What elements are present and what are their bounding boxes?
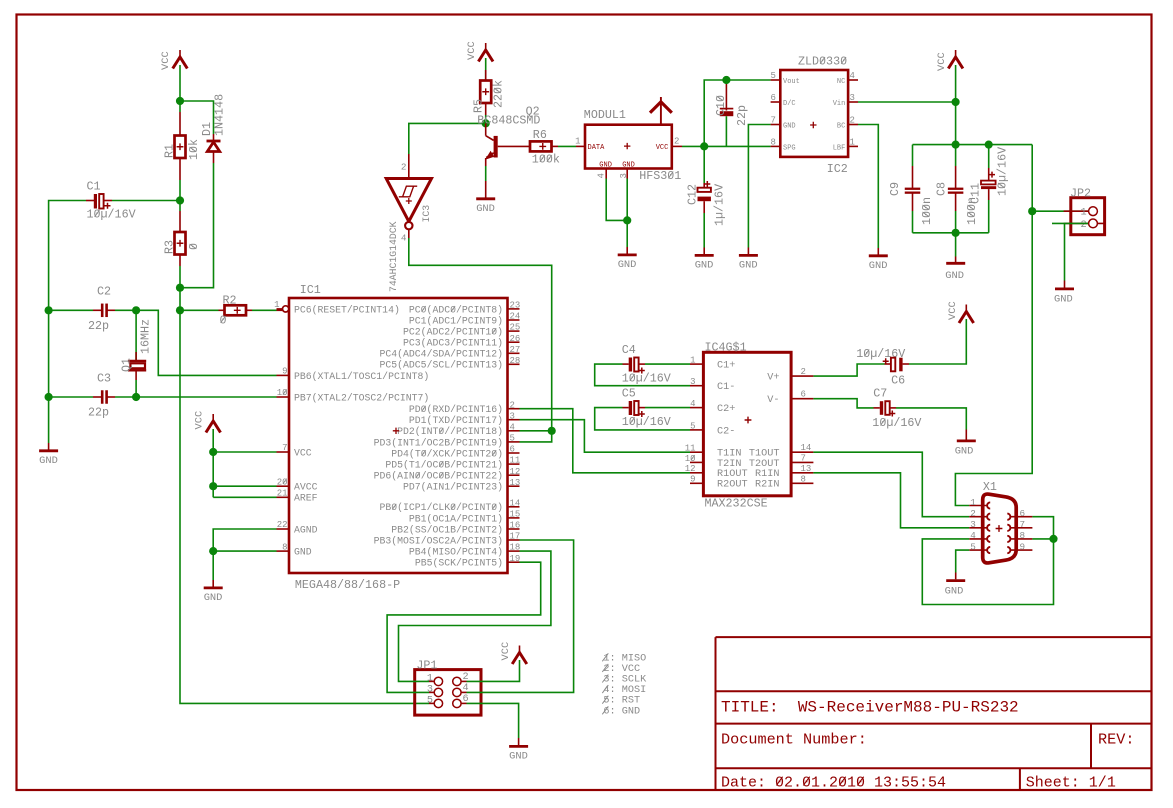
node junction C2/Q1/XTAL1 [132,306,140,314]
svg-text:4: MOSI: 4: MOSI [603,685,646,696]
ground symbol C12 [695,254,714,257]
svg-text:PD7(AIN1/PCINT23): PD7(AIN1/PCINT23) [403,482,503,493]
wire to IC1 AVCC pin 20 [213,485,276,487]
svg-text:100k: 100k [532,153,560,167]
svg-text:V-: V- [767,395,779,406]
svg-text:10µ/16V: 10µ/16V [622,372,671,386]
svg-text:1: 1 [427,673,433,684]
svg-text:GND: GND [509,751,528,763]
wire rail to JP2 and X1 pin1 [955,145,1032,506]
svg-text:GND: GND [945,270,964,282]
resistor R5 220k [485,70,487,81]
svg-text:5: 5 [510,434,515,444]
svg-text:16MHz: 16MHz [139,319,153,354]
svg-text:BC848CSMD: BC848CSMD [477,114,540,128]
JP1 pin legend [603,653,646,664]
svg-text:16: 16 [510,521,521,531]
svg-text:13: 13 [801,464,812,474]
svg-text:C11: C11 [969,183,983,204]
svg-text:LBF: LBF [833,145,846,153]
svg-text:3: 3 [690,377,695,387]
wire IC2 GND pin7 to ground [748,125,770,248]
supply VCC arrow above C6 [965,305,967,312]
svg-text:2: VCC: 2: VCC [603,664,640,675]
svg-text:3: SCLK: 3: SCLK [603,675,647,686]
svg-text:GND: GND [739,260,758,272]
wire C4 plus to C1+ [645,363,690,365]
svg-text:74AHC1G14DCK: 74AHC1G14DCK [388,221,399,292]
node junction D1/R3 [176,284,184,292]
svg-text:0: 0 [187,243,201,250]
svg-text:6: 6 [801,390,806,400]
ground symbol left rail [48,443,50,450]
svg-text:GND: GND [599,161,612,169]
svg-text:GND: GND [476,203,495,215]
svg-text:13: 13 [510,478,521,488]
svg-text:2: 2 [970,508,976,519]
svg-text:3: 3 [970,519,976,530]
svg-text:GND: GND [1054,293,1073,305]
X1 left pins [969,505,987,507]
svg-text:PB1(OC1A/PCINT1): PB1(OC1A/PCINT1) [409,513,503,524]
svg-text:C1-: C1- [717,382,735,393]
wire V- to C7 [813,399,873,408]
wire MOSI PB3 to JP1 pin4 [467,540,574,692]
wire JP1 pin6 to ground [467,703,519,738]
svg-text:PB5(SCK/PCINT5): PB5(SCK/PCINT5) [415,558,503,569]
wire JP2 pin2 to ground [1052,222,1088,224]
svg-text:10: 10 [685,454,696,464]
svg-text:GND: GND [783,123,796,131]
supply VCC arrow right [955,50,957,57]
wire R1IN to X1 pin3 [813,473,969,528]
wire pin8 to loop [1032,538,1053,540]
svg-text:D/C: D/C [783,100,796,108]
svg-text:2: 2 [674,137,679,147]
svg-text:Vin: Vin [833,100,846,108]
svg-text:R6: R6 [533,128,547,142]
svg-text:14: 14 [510,498,521,508]
svg-text:6: 6 [510,445,515,455]
node junction R1/C1 [176,196,184,204]
capacitor C10 22p [725,80,727,84]
MAX232 origin cross [745,417,752,424]
svg-text:R2IN: R2IN [755,480,779,491]
svg-text:PB7(XTAL2/TOSC2/PCINT7): PB7(XTAL2/TOSC2/PCINT7) [294,392,429,403]
svg-text:1: MISO: 1: MISO [603,653,646,664]
wire IC3 output to PD2/PD3 [409,238,552,442]
svg-text:C2-: C2- [717,426,735,437]
resistor R6 100k [530,141,552,151]
node junction Vout rail/MODUL1 VCC [700,142,708,150]
svg-text:AREF: AREF [294,493,318,504]
supply VCC arrow top-left [179,50,181,57]
node junction VCC pin7 [209,448,217,456]
node junction JP2 feed [1028,207,1036,215]
svg-text:1: 1 [274,300,279,310]
svg-text:C1: C1 [87,180,101,194]
svg-text:11: 11 [510,456,521,466]
rev label [1098,731,1134,749]
svg-text:5: 5 [427,695,433,706]
svg-text:18: 18 [510,543,521,553]
svg-text:10µ/16V: 10µ/16V [872,416,921,430]
svg-text:SPG: SPG [783,145,796,153]
wire AGND net [213,529,276,580]
svg-text:17: 17 [510,532,521,542]
svg-text:1: 1 [690,356,695,366]
svg-text:JP2: JP2 [1070,187,1091,201]
svg-text:PD2(INT0//PCINT18): PD2(INT0//PCINT18) [397,426,503,437]
IC2 ZLD0330 box [780,70,848,157]
sheet text [1026,774,1116,791]
svg-text:10: 10 [277,388,288,398]
svg-text:10µ/16V: 10µ/16V [87,208,136,222]
wire X1 pin4 to pin8/pin6 loop [922,517,1053,605]
svg-text:14: 14 [801,443,812,453]
svg-text:VCC: VCC [936,52,948,71]
svg-text:GND: GND [869,260,888,272]
svg-text:5: RST: 5: RST [603,696,640,707]
capacitor C3 22p [97,372,111,386]
svg-text:PC4(ADC4/SDA/PCINT12): PC4(ADC4/SDA/PCINT12) [380,349,503,360]
svg-text:R1OUT: R1OUT [717,469,748,480]
X1 right pins [1011,516,1033,518]
svg-text:22p: 22p [88,406,109,420]
svg-text:Sheet: 1/1: Sheet: 1/1 [1026,774,1116,791]
svg-text:C3: C3 [97,372,111,386]
svg-text:VCC: VCC [194,411,206,430]
capacitor C11 10u/16V [988,145,990,168]
wire R5 to base node [485,115,487,123]
node junction ground rail/C3 [45,393,53,401]
supply VCC arrow at IC1 [212,414,214,421]
svg-text:C1+: C1+ [717,361,735,372]
diode D1 1N4148 [213,134,215,141]
svg-text:VCC: VCC [947,301,959,320]
capacitor C4 10u/16V [622,343,636,357]
svg-text:T2IN: T2IN [717,459,741,470]
wire C5 minus loop to C2- [595,408,690,430]
IC2 left pins [771,79,781,81]
svg-text:2: 2 [801,367,806,377]
resistor R3 0 [179,211,181,232]
wire IC2 BC to ground [858,125,878,249]
title text [721,699,1019,717]
ground symbol C7 [957,439,976,442]
svg-text:PD3(INT1/OC2B/PCINT19): PD3(INT1/OC2B/PCINT19) [374,437,503,448]
svg-text:2: 2 [510,400,515,410]
wire Vout rail [704,80,770,146]
IC1 left pins [277,308,283,310]
transistor Q2 BC848CSMD [526,105,540,119]
wire R6 to MODUL1 DATA [558,145,576,147]
IC IC4G$1 MAX232CSE box [703,352,791,496]
wire to IC1 AREF pin 21 [213,496,276,498]
svg-text:GND: GND [945,586,964,598]
wire JP1 pin2 to VCC [467,660,520,681]
svg-text:4: 4 [510,422,515,432]
ground symbol cap rail [946,262,965,265]
svg-text:1: 1 [1081,207,1087,219]
svg-text:7: 7 [771,116,776,126]
wire C1 left to ground rail [49,201,86,444]
svg-text:10k: 10k [187,139,201,160]
svg-text:PD5(T1/OC0B/PCINT21): PD5(T1/OC0B/PCINT21) [385,460,503,471]
svg-text:GND: GND [695,260,714,272]
svg-text:C4: C4 [622,343,636,357]
svg-text:PC2(ADC2/PCINT10): PC2(ADC2/PCINT10) [403,327,503,338]
wire PD0 RXD to R1OUT [520,409,691,473]
supply VCC arrow JP1 [519,646,521,653]
wire X1 pin5 to ground [956,550,970,572]
svg-text:7: 7 [801,453,806,463]
svg-text:19: 19 [510,554,521,564]
svg-text:4: 4 [690,399,695,409]
IC2 right pins [848,79,858,81]
wire junction to PD2 pin [520,430,552,432]
resistor R2 0 [180,309,219,311]
wire T1OUT to X1 pin2 [813,452,969,517]
svg-text:GND: GND [618,259,637,271]
svg-text:27: 27 [510,345,521,355]
wire V+ to C6 [813,364,884,376]
svg-text:1: 1 [575,137,580,147]
svg-text:6: GND: 6: GND [603,706,640,717]
svg-text:8: 8 [771,137,776,147]
node junction pin8 loop [1049,535,1057,543]
MODUL1 ground pins wires [605,169,607,179]
svg-text:C9: C9 [888,182,902,196]
svg-text:AGND: AGND [294,524,318,535]
svg-text:10µ/16V: 10µ/16V [996,147,1010,196]
svg-text:GND: GND [39,455,58,467]
svg-text:PB0(ICP1/CLK0/PCINT0): PB0(ICP1/CLK0/PCINT0) [380,502,503,513]
svg-text:4: 4 [850,71,855,81]
ground symbol IC2 gnd [739,254,758,257]
wire C4 minus loop to C1- [595,364,690,386]
svg-text:100n: 100n [920,197,934,225]
svg-text:IC3: IC3 [421,205,432,223]
svg-text:GND: GND [204,592,223,604]
capacitor C2 22p [97,285,111,299]
wire C3/Q1 to IC1 XTAL2 pin 10 [115,396,277,398]
wire to IC1 XTAL1 pin 9 [136,310,276,375]
svg-text:MODUL1: MODUL1 [584,108,626,122]
svg-text:21: 21 [277,489,288,499]
svg-text:GND: GND [955,445,974,457]
connector JP2 [1071,198,1105,235]
wire junction to JP2 pin1 [1032,210,1088,212]
node junction R5/IC3/Q2 [482,119,490,127]
node junction AGND/GND [209,547,217,555]
svg-text:1µ/16V: 1µ/16V [713,184,727,226]
svg-text:Q1: Q1 [120,358,134,372]
wire SCLK PB5 to JP1 pin3 [387,562,541,692]
capacitor C8 100n [955,145,957,166]
svg-text:8: 8 [801,474,806,484]
wire cap rail top [913,144,1033,146]
resistor R1 10k [179,112,181,136]
svg-text:IC1: IC1 [300,283,321,297]
svg-text:C10: C10 [714,95,728,116]
svg-text:Vout: Vout [783,78,800,86]
svg-text:R5: R5 [472,99,486,113]
inverter IC3 74AHC1G14DCK [386,179,431,222]
svg-text:23: 23 [510,301,521,311]
capacitor C1 10u/16V [87,180,101,194]
wire VCC down to AREF [212,429,214,497]
wire C2 left to ground rail [49,309,93,311]
wire C5 plus to C2+ [645,407,690,409]
svg-text:0: 0 [220,314,227,328]
svg-text:20: 20 [277,477,288,487]
svg-text:24: 24 [510,312,521,322]
svg-text:9: 9 [282,367,287,377]
svg-text:6: 6 [771,93,776,103]
node junction bottom rail [952,229,960,237]
svg-text:GND: GND [622,161,635,169]
svg-text:2: 2 [401,162,407,173]
svg-text:PD1(TXD/PCINT17): PD1(TXD/PCINT17) [409,415,503,426]
svg-text:8: 8 [282,542,287,552]
svg-text:10µ/16V: 10µ/16V [622,415,671,429]
svg-text:1: 1 [850,137,855,147]
svg-text:BC: BC [837,123,845,131]
svg-text:C2+: C2+ [717,404,735,415]
svg-text:REV:: REV: [1098,731,1134,749]
connector JP1 box [415,670,481,716]
capacitor C9 100n [912,145,914,166]
supply VCC arrow above R5 [485,43,487,50]
MAX232 left pins [690,363,703,365]
svg-text:VCC: VCC [466,41,478,60]
svg-text:PC1(ADC1/PCINT9): PC1(ADC1/PCINT9) [409,315,503,326]
svg-text:AVCC: AVCC [294,482,318,493]
svg-text:7: 7 [1020,519,1026,530]
svg-text:MEGA48/88/168-P: MEGA48/88/168-P [295,578,400,592]
svg-text:IC4G$1: IC4G$1 [705,341,747,355]
ground symbol MODUL1 [618,253,637,256]
svg-text:4: 4 [970,530,976,541]
svg-text:C8: C8 [935,182,949,196]
IC1 origin cross [393,428,399,434]
Q2 base wire to R6 [498,145,530,147]
wire MISO PB4 to JP1 pin1 [399,551,551,681]
wire cap rail bottom [913,232,989,234]
svg-text:MAX232CSE: MAX232CSE [705,497,768,511]
svg-text:T2OUT: T2OUT [749,459,780,470]
node junction rail/C11 [985,141,993,149]
wire VCC to R5 [485,58,487,81]
supply VCC arrow above MODUL1 [660,97,662,125]
svg-text:28: 28 [510,356,521,366]
wire R1 to R3 [179,180,181,211]
svg-text:C7: C7 [873,387,887,401]
IC2 origin cross [810,122,816,128]
svg-text:X1: X1 [983,480,997,494]
svg-text:VCC: VCC [500,642,512,661]
svg-text:JP1: JP1 [416,659,437,673]
ground symbol JP2 [1055,287,1074,290]
svg-text:7: 7 [282,443,287,453]
svg-text:R2: R2 [223,293,237,307]
svg-text:22: 22 [277,520,288,530]
svg-text:IC2: IC2 [827,162,848,176]
capacitor C5 10u/16V [622,387,636,401]
svg-text:9: 9 [1020,541,1026,552]
node junction AVCC [209,482,217,490]
ground symbol JP1 [509,745,528,748]
document number label [721,731,867,749]
svg-text:PB4(MISO/PCINT4): PB4(MISO/PCINT4) [409,547,503,558]
wire R2 to IC1 reset pin [252,309,277,311]
svg-text:V+: V+ [767,373,779,384]
svg-text:PD6(AIN0/OC0B/PCINT22): PD6(AIN0/OC0B/PCINT22) [374,471,503,482]
svg-text:1N4148: 1N4148 [213,94,227,136]
svg-text:VCC: VCC [656,144,669,152]
node junction PD2 [548,427,556,435]
MODUL1 pin2 VCC wire [672,145,682,147]
wire rail to ground [955,233,957,257]
svg-text:3: 3 [427,684,433,695]
wire C6 to VCC arrow [909,319,966,364]
svg-text:R2OUT: R2OUT [717,480,748,491]
svg-text:Date: 02.01.2010 13:55:54: Date: 02.01.2010 13:55:54 [721,774,946,791]
wire VCC arrow down [955,65,957,145]
wire VCC to R1/D1 junction [179,65,181,112]
svg-text:NC: NC [837,78,845,86]
svg-text:22p: 22p [88,319,109,333]
wire reset net down to JP1 pin5 (RST) [180,310,429,703]
crystal Q1 16MHz [135,310,137,361]
MAX232 right pins [791,375,813,377]
capacitor C6 10u/16V [856,347,905,361]
svg-text:10µ/16V: 10µ/16V [856,347,905,361]
wire R3 to reset row [179,266,181,310]
node junction MODUL1 gnd [623,216,631,224]
IC1 right pins [508,308,520,310]
ground symbol BC [869,254,888,257]
ground symbol X1 [946,579,965,582]
node junction Vin/VCC [952,98,960,106]
svg-text:2: 2 [1081,219,1087,231]
svg-text:R1IN: R1IN [755,469,779,480]
svg-text:2: 2 [850,116,855,126]
svg-text:PD4(T0/XCK/PCINT20): PD4(T0/XCK/PCINT20) [391,448,503,459]
svg-text:15: 15 [510,510,521,520]
wire to IC1 GND pin 8 [213,550,276,552]
capacitor C12 1u/16V [703,146,705,183]
svg-text:PB2(SS/OC1B/PCINT2): PB2(SS/OC1B/PCINT2) [391,524,503,535]
svg-text:5: 5 [970,541,976,552]
wire junction to IC3 input [409,123,486,154]
svg-text:PB3(MOSI/OSC2A/PCINT3): PB3(MOSI/OSC2A/PCINT3) [374,535,503,546]
wire to IC1 VCC pin 7 [213,451,276,453]
svg-text:HFS301: HFS301 [639,169,681,183]
svg-text:8: 8 [1020,530,1026,541]
IC U1: IC1 MEGA48/88/168-P box [289,298,508,573]
svg-text:TITLE: WS-ReceiverM88-PU-RS23: TITLE: WS-ReceiverM88-PU-RS232 [721,699,1019,717]
svg-text:C6: C6 [891,374,905,388]
capacitor C7 10u/16V [873,387,887,401]
svg-text:6: 6 [1020,508,1026,519]
wire C7 to ground [896,408,966,430]
svg-text:ZLD0330: ZLD0330 [798,55,847,69]
title block [716,637,1152,790]
svg-text:4: 4 [401,233,407,244]
node junction Q1/C3/XTAL2 [132,393,140,401]
